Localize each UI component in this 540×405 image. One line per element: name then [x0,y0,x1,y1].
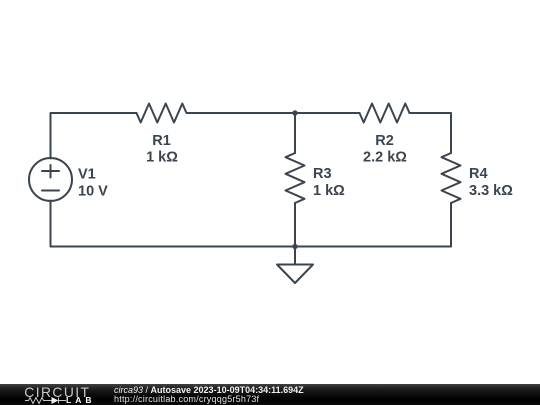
label V1 [78,167,96,183]
node A (top junction) [292,110,297,115]
label R1 [152,133,171,149]
value 3.3 kΩ (R4) [469,183,513,199]
svg-text:LAB: LAB [66,395,95,405]
resistor R4 [442,153,461,203]
svg-text:R1: R1 [152,133,171,149]
svg-text:R3: R3 [313,166,332,182]
resistor R2 [360,104,410,123]
voltage source V1 [29,158,72,201]
footer text [114,386,534,403]
wire top-left: V1 top to R1 [51,113,137,159]
svg-text:3.3 kΩ: 3.3 kΩ [469,183,513,199]
wire R1 to node A [187,112,296,114]
wire R2 to top-right corner down to R4 [410,113,452,153]
wire node A to R2 [295,112,360,114]
svg-text:R2: R2 [375,133,394,149]
node B (bottom junction) [292,244,297,249]
value 10 V (V1) [78,184,108,200]
svg-text:V1: V1 [78,167,96,183]
CircuitLab logo [0,384,100,405]
label R4 [469,166,488,182]
wire R3 to node B [294,203,296,247]
wire bottom-left: V1 bottom to node B [51,201,296,247]
value 1 kΩ (R3) [313,183,345,199]
label R3 [313,166,332,182]
value 1 kΩ (R1) [146,150,178,166]
resistor R1 [137,104,187,123]
svg-text:10 V: 10 V [78,184,108,200]
footer bar [0,384,540,405]
svg-text:2.2 kΩ: 2.2 kΩ [363,150,407,166]
wire node A to R3 [294,113,296,153]
svg-text:1 kΩ: 1 kΩ [313,183,345,199]
resistor R3 [286,153,305,203]
svg-text:1 kΩ: 1 kΩ [146,150,178,166]
label R2 [375,133,394,149]
svg-text:R4: R4 [469,166,488,182]
wire R4 to bottom-right corner to node B [295,203,451,247]
ground [277,247,313,284]
value 2.2 kΩ (R2) [363,150,407,166]
